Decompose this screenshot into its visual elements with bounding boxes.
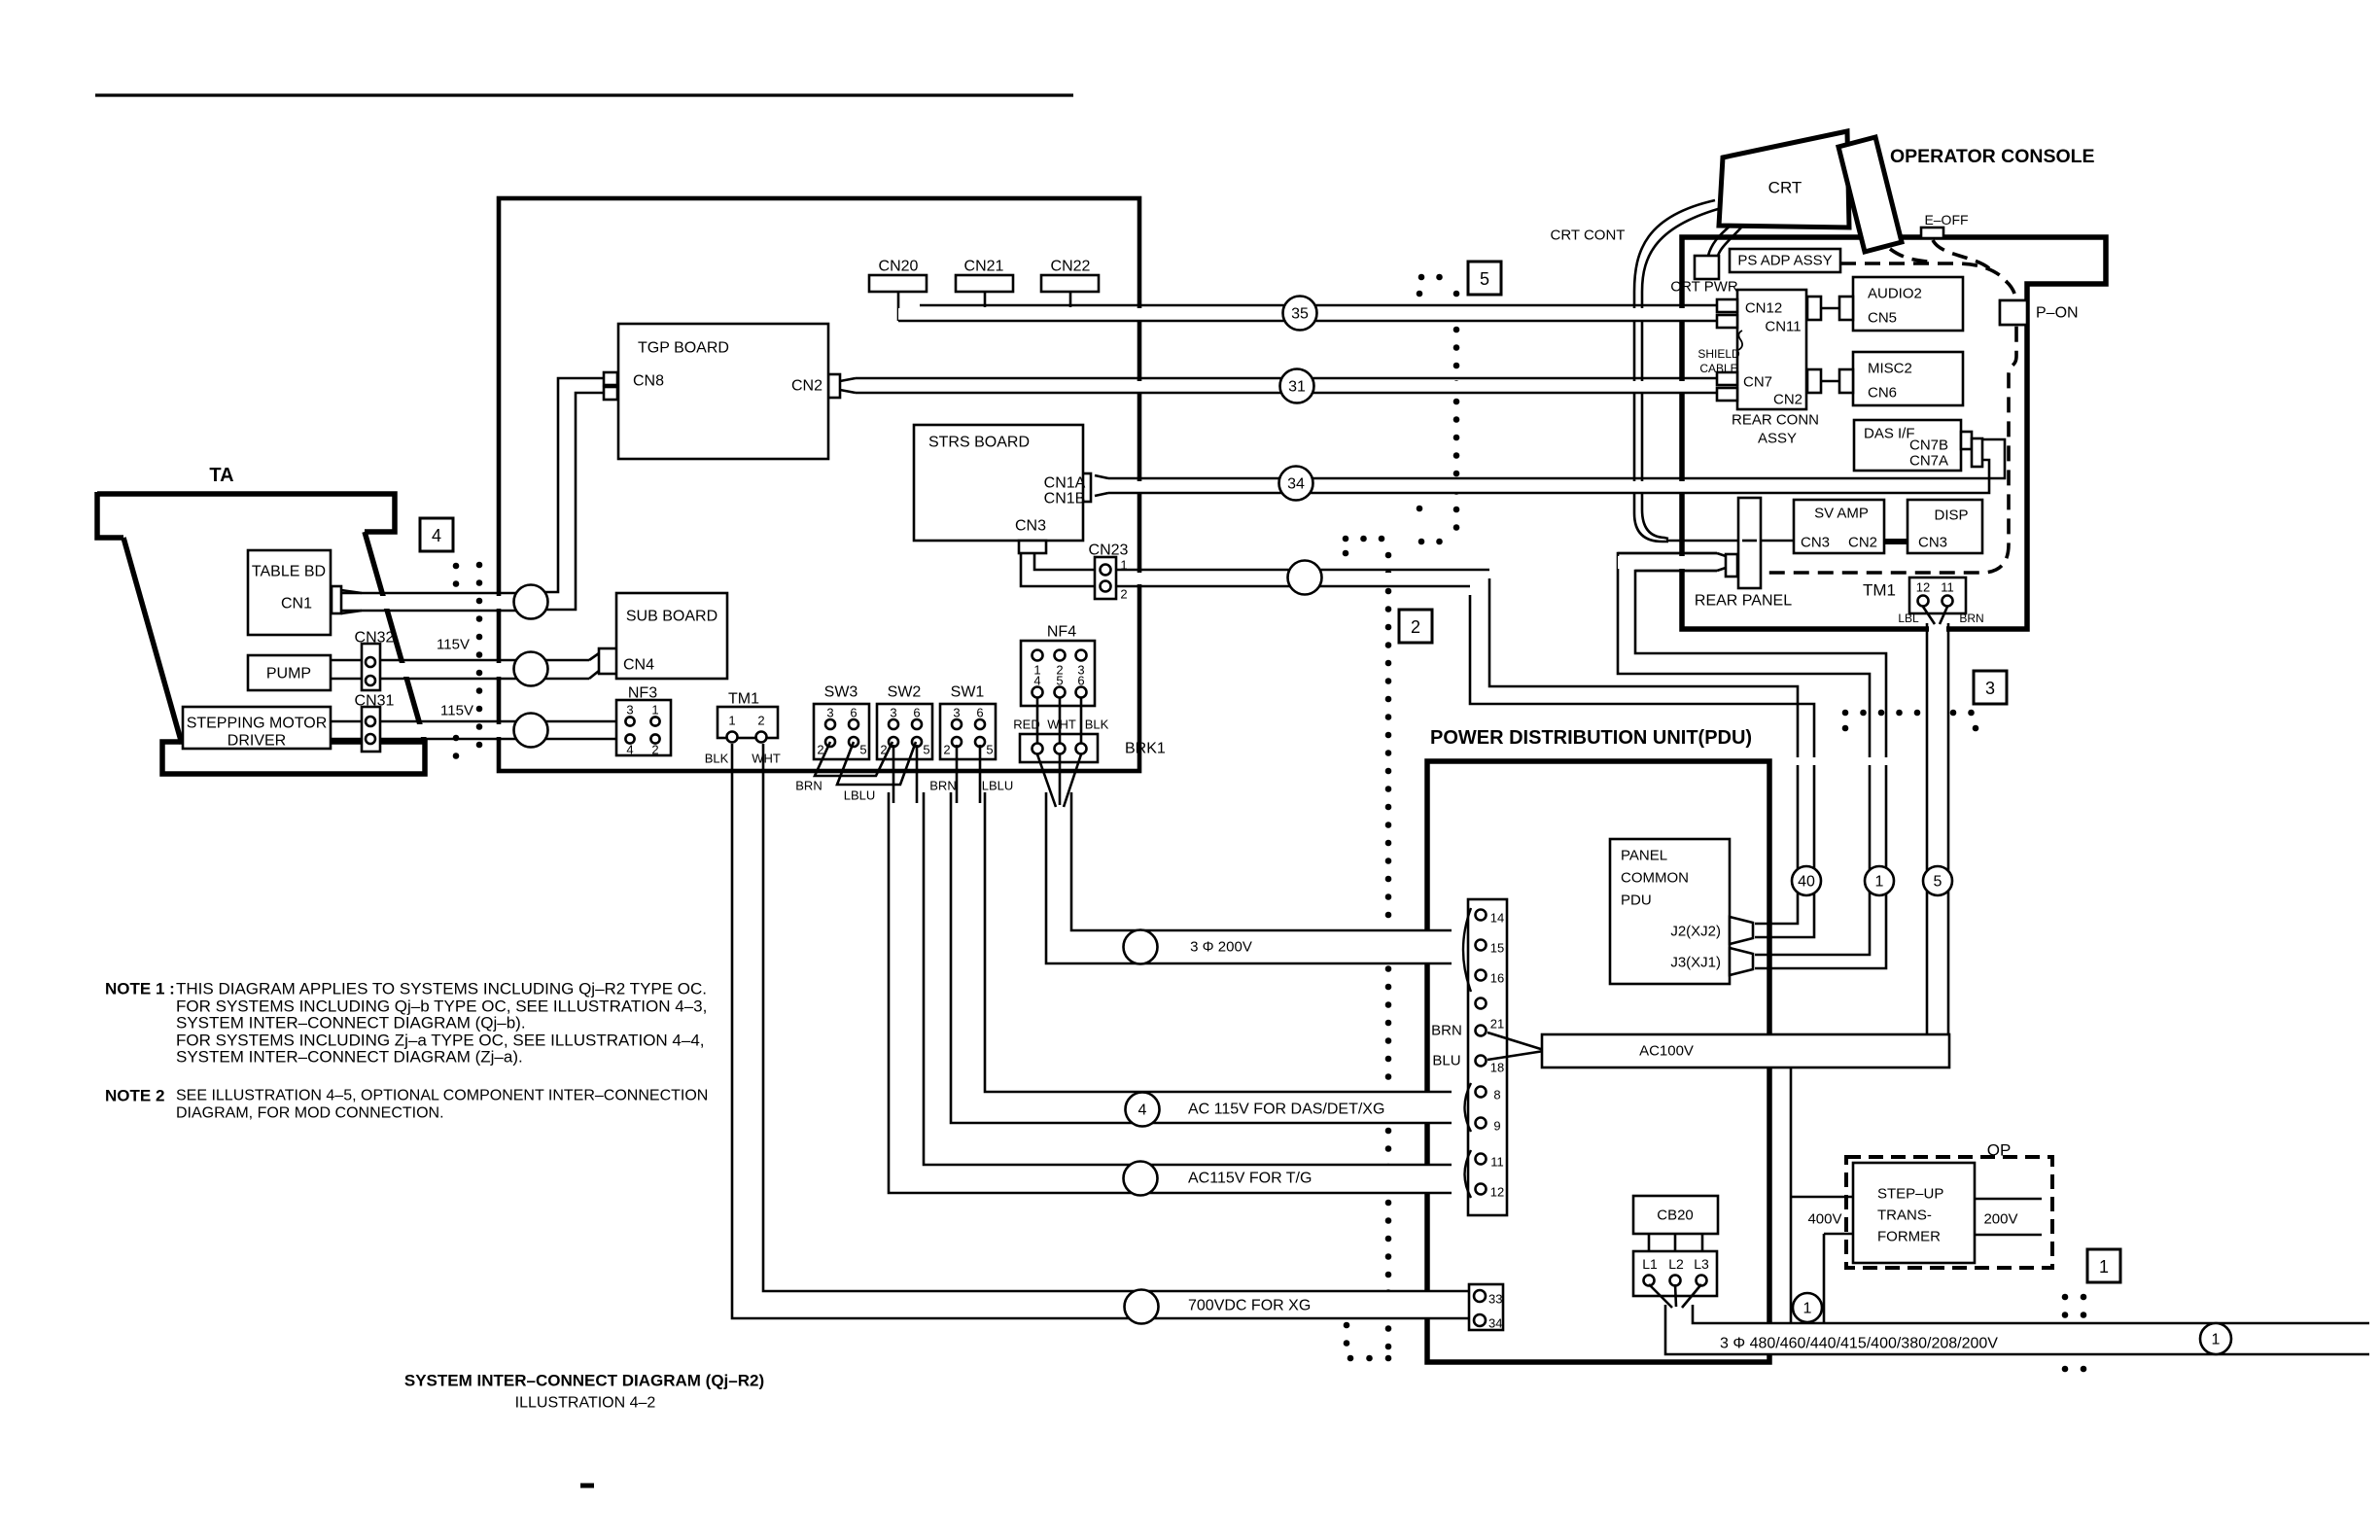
svg-text:115V: 115V (437, 637, 470, 653)
J3 wedge (1730, 948, 1753, 975)
svg-text:1: 1 (1875, 874, 1884, 891)
cable 35 channel (898, 308, 1713, 320)
svg-text:4: 4 (1138, 1102, 1147, 1119)
J2 wedge (1730, 917, 1753, 944)
PS ADP ASSY box (1730, 249, 1840, 272)
console TM1 pins (1918, 596, 1929, 607)
svg-text:LBL: LBL (1898, 612, 1919, 625)
TA outline bottom bar (162, 742, 425, 774)
svg-text:6: 6 (976, 706, 983, 720)
DAS I/F stubs (1961, 432, 1972, 449)
svg-text:REAR CONN: REAR CONN (1732, 412, 1819, 429)
SW3-SW2 crossover wire LBLU (837, 742, 916, 785)
SW3 pins (825, 719, 835, 729)
svg-text:40: 40 (1798, 874, 1815, 891)
svg-text:BLK: BLK (705, 752, 729, 766)
top rule line (95, 93, 1073, 96)
CN22 box (1041, 275, 1099, 292)
svg-text:BRN: BRN (929, 779, 956, 793)
svg-text:5: 5 (1480, 269, 1489, 289)
svg-text:SW1: SW1 (951, 684, 985, 701)
BRK1 box (1020, 734, 1098, 762)
svg-text:DAS I/F: DAS I/F (1864, 426, 1915, 442)
svg-text:21: 21 (1490, 1017, 1504, 1032)
3-phase 200V cable channel (1046, 792, 1452, 963)
svg-text:WHT: WHT (1047, 717, 1076, 732)
svg-text:11: 11 (1490, 1155, 1504, 1170)
CRT CONT cable curve (1634, 200, 1715, 542)
svg-text:AC 115V FOR DAS/DET/XG: AC 115V FOR DAS/DET/XG (1188, 1102, 1384, 1118)
svg-text:TABLE BD: TABLE BD (252, 564, 326, 580)
svg-text:L2: L2 (1668, 1256, 1684, 1272)
svg-text:CN2: CN2 (1848, 535, 1877, 551)
svg-text:2: 2 (1120, 587, 1127, 602)
svg-text:SYSTEM INTER–CONNECT DIAGRAM (: SYSTEM INTER–CONNECT DIAGRAM (Zj–a). (176, 1048, 523, 1067)
SW1 box (940, 704, 996, 759)
svg-text:AUDIO2: AUDIO2 (1868, 286, 1922, 302)
svg-text:CN3: CN3 (1015, 518, 1046, 535)
circled ref 5 (1923, 866, 1952, 895)
200V output lines (1975, 1198, 2042, 1201)
svg-text:CN2: CN2 (1773, 392, 1802, 408)
wire grommet to TGP CN8 upper (544, 378, 604, 592)
svg-text:POWER DISTRIBUTION UNIT(PDU): POWER DISTRIBUTION UNIT(PDU) (1430, 727, 1752, 749)
svg-text:CN6: CN6 (1868, 385, 1897, 402)
svg-text:1: 1 (728, 714, 735, 728)
CB20 stubs (1648, 1234, 1651, 1251)
svg-text:TM1: TM1 (1863, 581, 1896, 600)
wire STRS CN3 to CN23 pin2 (1021, 553, 1099, 586)
SW2 pin wires (892, 745, 895, 803)
svg-text:BRN: BRN (1431, 1023, 1462, 1039)
NF4 to BRK1 wires (1036, 698, 1039, 744)
svg-text:3 Φ 480/460/440/415/400/380/20: 3 Φ 480/460/440/415/400/380/208/200V (1720, 1336, 1998, 1352)
P-ON box redraw over dashed (2000, 300, 2027, 325)
svg-text:1: 1 (651, 703, 658, 717)
dash inside REAR PANEL connector (1742, 540, 1757, 542)
wire CN20 stub (897, 292, 900, 321)
svg-text:NF4: NF4 (1047, 624, 1076, 641)
svg-text:LBLU: LBLU (844, 788, 876, 803)
wire CN21/CN22 stubs (984, 292, 987, 307)
wire REAR PANEL to J3 upper (1618, 553, 1870, 955)
svg-text:TRANS-: TRANS- (1877, 1207, 1932, 1224)
PDU enclosure box (1427, 761, 1769, 1362)
svg-text:E–OFF: E–OFF (1924, 212, 1968, 227)
page dash (580, 1484, 594, 1488)
STRS CN3 stub (1019, 541, 1046, 553)
svg-text:4: 4 (626, 743, 633, 757)
svg-text:15: 15 (1490, 941, 1504, 956)
svg-text:PUMP: PUMP (266, 666, 311, 682)
gantry wall grommet (514, 585, 548, 619)
TA outline left step (97, 492, 123, 538)
E-OFF box (1921, 227, 1943, 238)
svg-text:1: 1 (2212, 1332, 2221, 1348)
wire REAR PANEL to J3 lower (1635, 571, 1886, 968)
svg-text:9: 9 (1493, 1119, 1500, 1134)
700VDC cable channel (732, 777, 1452, 1318)
svg-text:WHT: WHT (752, 752, 781, 766)
bundle marker 2 dotted line (1343, 536, 1349, 542)
svg-text:TA: TA (209, 465, 233, 486)
STRS BOARD box (914, 425, 1083, 541)
svg-text:4: 4 (1033, 674, 1040, 688)
svg-text:SV AMP: SV AMP (1814, 506, 1869, 522)
svg-text:L3: L3 (1694, 1256, 1709, 1272)
svg-text:1: 1 (1803, 1301, 1812, 1317)
STEP-UP TRANSFORMER box (1853, 1163, 1975, 1263)
svg-text:6: 6 (1077, 674, 1084, 688)
CN31 cable channel (331, 724, 622, 737)
svg-text:CN20: CN20 (879, 259, 919, 275)
cable 34 channel (1108, 481, 1988, 492)
cable grommet circle (1124, 1162, 1158, 1196)
strip group brackets (1463, 908, 1471, 992)
PANEL COMMON PDU box (1610, 839, 1730, 984)
svg-text:3 Φ 200V: 3 Φ 200V (1190, 939, 1252, 956)
svg-text:CN1B: CN1B (1044, 491, 1086, 507)
svg-text:CN3: CN3 (1801, 535, 1830, 551)
strip to AC100V wires (1487, 1032, 1544, 1050)
svg-text:12: 12 (1490, 1185, 1504, 1200)
svg-text:RED: RED (1013, 717, 1039, 732)
svg-text:FORMER: FORMER (1877, 1229, 1941, 1245)
cable31 wedges at CN7/CN2 (1717, 372, 1737, 385)
svg-text:6: 6 (913, 706, 920, 720)
svg-text:CN23: CN23 (1089, 542, 1129, 559)
circled ref 4 (1126, 1093, 1160, 1127)
svg-text:NOTE 2: NOTE 2 (105, 1087, 164, 1105)
svg-text:SUB BOARD: SUB BOARD (626, 609, 717, 625)
cable grommet circle (1124, 930, 1158, 964)
svg-text:2: 2 (651, 743, 658, 757)
svg-text:NF3: NF3 (628, 685, 657, 702)
svg-text:ASSY: ASSY (1758, 431, 1797, 447)
svg-text:3: 3 (626, 703, 633, 717)
svg-text:CN31: CN31 (355, 693, 395, 710)
TA outline right diagonal (365, 532, 425, 742)
TABLE BD box (248, 550, 331, 635)
svg-text:5: 5 (923, 743, 929, 757)
svg-text:CN21: CN21 (964, 259, 1004, 275)
SUB BOARD box (616, 593, 727, 679)
cable grommet circle (1288, 561, 1322, 595)
internal dashed cable E-OFF to rear panel (1762, 281, 2016, 573)
400V feed lines (1790, 1067, 1793, 1323)
svg-text:18: 18 (1490, 1061, 1504, 1075)
gantry wall grommet (514, 652, 548, 686)
AC115V DAS cable channel (951, 792, 1452, 1123)
svg-text:AC115V FOR T/G: AC115V FOR T/G (1188, 1171, 1312, 1187)
svg-text:400V: 400V (1807, 1211, 1841, 1228)
REAR PANEL cable channel (1618, 556, 1715, 569)
svg-text:SYSTEM INTER–CONNECT DIAGRAM (: SYSTEM INTER–CONNECT DIAGRAM (Qj–R2) (404, 1372, 764, 1390)
svg-text:1: 1 (2099, 1257, 2109, 1277)
strip pins (1476, 910, 1487, 921)
bundle marker 1 dotted bracket (2062, 1294, 2069, 1301)
svg-text:AC100V: AC100V (1639, 1043, 1694, 1060)
svg-text:6: 6 (850, 706, 857, 720)
svg-text:SYSTEM INTER–CONNECT DIAGRAM (: SYSTEM INTER–CONNECT DIAGRAM (Qj–b). (176, 1014, 526, 1032)
svg-text:TM1: TM1 (728, 691, 759, 708)
svg-text:STRS BOARD: STRS BOARD (928, 435, 1030, 451)
cable grommet circle (1125, 1290, 1159, 1324)
svg-text:CN8: CN8 (633, 373, 664, 390)
svg-text:J3(XJ1): J3(XJ1) (1670, 955, 1721, 971)
svg-text:SEE ILLUSTRATION 4–5, OPTIONAL: SEE ILLUSTRATION 4–5, OPTIONAL COMPONENT… (176, 1088, 708, 1104)
BRK1 pins (1032, 744, 1043, 754)
SW2 box (877, 704, 932, 759)
TABLE BD CN1 cable channel (341, 596, 526, 609)
cable 31 channel (856, 381, 1717, 392)
svg-text:34: 34 (1488, 1316, 1502, 1331)
PUMP/CN32 cable channel (331, 663, 589, 677)
wire CN23 to J2 upper (1489, 578, 1798, 924)
svg-text:STEP–UP: STEP–UP (1877, 1186, 1943, 1203)
svg-text:BRK1: BRK1 (1125, 741, 1166, 757)
svg-text:SW3: SW3 (824, 684, 858, 701)
console TM1 pin V wires (1923, 607, 1935, 624)
PDU terminal strip (1468, 899, 1507, 1215)
svg-text:OPERATOR CONSOLE: OPERATOR CONSOLE (1890, 146, 2095, 167)
bundle label box 1 (2087, 1249, 2120, 1282)
STEPPING MOTOR DRIVER box (183, 707, 331, 749)
svg-text:33: 33 (1488, 1292, 1502, 1307)
SW1 pin wires (956, 745, 959, 803)
svg-text:2: 2 (943, 743, 950, 757)
gantry TM1 box (717, 707, 778, 738)
bundle marker 3 dotted bracket (1842, 710, 1849, 717)
SUB BOARD CN4 stub (599, 648, 617, 674)
SV AMP to DISP link (1884, 539, 1907, 544)
CN20 box (869, 275, 927, 292)
svg-text:L1: L1 (1642, 1256, 1658, 1272)
svg-text:REAR PANEL: REAR PANEL (1695, 593, 1792, 610)
svg-text:COMMON: COMMON (1621, 870, 1689, 887)
svg-text:CN11: CN11 (1765, 319, 1801, 335)
TA gantry-table outline top bar (97, 494, 395, 532)
svg-text:THIS DIAGRAM APPLIES TO SYSTEM: THIS DIAGRAM APPLIES TO SYSTEMS INCLUDIN… (176, 980, 707, 998)
svg-text:3: 3 (890, 706, 896, 720)
console side panel polygon (1838, 137, 1902, 252)
operator console enclosure (1682, 237, 2106, 629)
svg-text:5: 5 (986, 743, 993, 757)
svg-text:5: 5 (859, 743, 866, 757)
bundle label box 5 (1468, 262, 1501, 295)
SV AMP box (1794, 500, 1884, 553)
cable35 wedges at CN12/CN11 (1717, 299, 1737, 312)
svg-text:J2(XJ2): J2(XJ2) (1670, 924, 1721, 940)
circled ref 40 (1792, 866, 1821, 895)
svg-text:CN7A: CN7A (1909, 453, 1948, 470)
AUDIO2 box (1853, 277, 1963, 331)
svg-text:BRN: BRN (795, 779, 822, 793)
33/34 connector (1469, 1284, 1503, 1330)
svg-text:BLK: BLK (1085, 717, 1109, 732)
console TM1 cable channel (1929, 623, 1946, 1034)
svg-text:NOTE 1 :: NOTE 1 : (105, 980, 175, 998)
svg-text:PDU: PDU (1621, 892, 1652, 909)
svg-text:MISC2: MISC2 (1868, 361, 1912, 377)
CRT polygon (1719, 131, 1849, 227)
CN32 connector (362, 644, 380, 690)
svg-text:700VDC FOR XG: 700VDC FOR XG (1188, 1298, 1311, 1314)
gantry wall grommet (514, 714, 548, 748)
svg-text:CN12: CN12 (1745, 300, 1782, 317)
svg-text:5: 5 (1934, 874, 1942, 891)
NF4 pins (1032, 650, 1043, 661)
svg-text:CN7: CN7 (1743, 374, 1772, 391)
svg-text:11: 11 (1941, 580, 1954, 595)
svg-text:BRN: BRN (1959, 612, 1983, 625)
circled ref 31 (1280, 369, 1314, 403)
circled ref 1 (1793, 1293, 1822, 1322)
svg-text:LBLU: LBLU (982, 779, 1014, 793)
AC100V bus box (1542, 1034, 1949, 1067)
svg-text:5: 5 (1056, 674, 1063, 688)
TGP CN8 stubs (604, 372, 617, 385)
svg-text:TGP BOARD: TGP BOARD (638, 340, 729, 357)
bundle marker 5 dotted bracket (1418, 274, 1425, 281)
svg-text:CN2: CN2 (791, 378, 822, 395)
svg-text:CB20: CB20 (1657, 1207, 1694, 1224)
L1L2L3 converge wires (1649, 1284, 1672, 1308)
wire STRS CN3 to CN23 pin1 (1034, 553, 1099, 570)
TA outline left diagonal (123, 538, 182, 744)
NF4 box (1021, 641, 1095, 706)
CRT CONT line to SV AMP (1666, 540, 1737, 542)
svg-text:14: 14 (1490, 911, 1504, 926)
svg-text:DISP: DISP (1934, 507, 1968, 524)
wire grommet to TGP CN8 lower (544, 393, 604, 610)
svg-text:16: 16 (1490, 971, 1504, 986)
bundle label box 4 (420, 518, 453, 551)
svg-text:CN4: CN4 (623, 657, 654, 674)
svg-text:200V: 200V (1983, 1211, 2017, 1228)
STRS CN1A/CN1B stub (1076, 473, 1091, 502)
svg-text:2: 2 (1411, 617, 1420, 637)
svg-text:ILLUSTRATION 4–2: ILLUSTRATION 4–2 (515, 1395, 656, 1412)
MISC2 connector pair (1821, 380, 1839, 383)
bundle label box 3 (1974, 671, 2007, 704)
REAR PANEL connector box (1738, 498, 1761, 588)
svg-text:CRT: CRT (1768, 179, 1802, 197)
PUMP box (248, 655, 331, 690)
REAR PANEL wedge (1726, 554, 1737, 577)
MISC2 box (1853, 352, 1963, 405)
CN23 connector (1095, 557, 1116, 599)
REAR CONN ASSY box (1737, 290, 1806, 409)
TGP BOARD box (618, 324, 828, 459)
svg-text:CABLE: CABLE (1699, 362, 1737, 375)
circled ref 34 (1279, 467, 1313, 501)
DAS I/F box (1854, 420, 1961, 471)
svg-text:PANEL: PANEL (1621, 848, 1667, 864)
svg-text:34: 34 (1287, 476, 1305, 493)
svg-text:CRT PWR: CRT PWR (1670, 279, 1738, 296)
P-ON box (2000, 300, 2027, 325)
svg-text:4: 4 (432, 526, 441, 545)
CRT PWR box (1695, 256, 1719, 279)
SW1 pins (952, 719, 962, 729)
svg-text:CN22: CN22 (1051, 259, 1091, 275)
NF3 box (616, 700, 671, 755)
svg-text:35: 35 (1291, 306, 1309, 323)
circled ref 1 (1865, 866, 1894, 895)
CN31 connector (362, 707, 380, 752)
svg-text:SHIELD: SHIELD (1697, 347, 1740, 361)
circled ref 35 (1283, 297, 1317, 331)
AUDIO2 connector pair (1821, 307, 1839, 310)
svg-text:STEPPING MOTOR: STEPPING MOTOR (187, 716, 328, 732)
svg-text:CRT CONT: CRT CONT (1551, 227, 1626, 244)
svg-text:CN7B: CN7B (1909, 437, 1948, 454)
svg-text:3: 3 (953, 706, 960, 720)
CRT PWR cable curve (1708, 225, 1732, 256)
svg-text:OP: OP (1987, 1141, 2012, 1160)
CN21 box (956, 275, 1013, 292)
OP dashed box (1846, 1157, 2052, 1268)
L1L2L3 box (1633, 1251, 1717, 1296)
console TM1 box (1909, 577, 1966, 613)
svg-text:BLU: BLU (1432, 1053, 1460, 1069)
SW3-SW2 crossover wire BRN (815, 742, 892, 776)
SW2 pins (889, 719, 898, 729)
svg-text:DIAGRAM, FOR MOD CONNECTION.: DIAGRAM, FOR MOD CONNECTION. (176, 1105, 444, 1122)
svg-text:3: 3 (1985, 679, 1995, 698)
DISP box (1907, 500, 1982, 553)
svg-text:2: 2 (757, 714, 764, 728)
svg-text:PS ADP ASSY: PS ADP ASSY (1737, 253, 1832, 269)
circled ref 1 (2200, 1323, 2231, 1354)
svg-text:8: 8 (1493, 1088, 1500, 1102)
svg-text:115V: 115V (440, 703, 473, 719)
BRK1 converge wires (1037, 754, 1056, 807)
CN23 cable channel (1118, 573, 1449, 584)
gantry enclosure box (499, 198, 1139, 771)
NF3 pins (625, 717, 634, 725)
bundle marker 4 dotted bracket (453, 563, 460, 570)
svg-text:CN5: CN5 (1868, 310, 1897, 327)
svg-text:CN1: CN1 (281, 596, 312, 612)
wire CN23 to J2 lower (1470, 595, 1814, 937)
svg-text:CN32: CN32 (355, 630, 395, 647)
TABLE BD CN1 stub (332, 586, 341, 613)
svg-text:1: 1 (1120, 558, 1127, 573)
white break on PDU top edge for J2 wires (1792, 757, 1819, 765)
bundle label box 2 (1399, 610, 1432, 643)
svg-text:12: 12 (1916, 580, 1930, 595)
svg-text:3: 3 (826, 706, 833, 720)
svg-text:CN1A: CN1A (1044, 475, 1086, 492)
svg-text:DRIVER: DRIVER (227, 733, 286, 750)
CB20 box (1633, 1196, 1718, 1234)
AC115V TG cable channel (889, 792, 1452, 1193)
svg-text:SW2: SW2 (888, 684, 922, 701)
svg-text:P–ON: P–ON (2036, 305, 2079, 322)
3-phase 480V bus channel (1665, 1305, 2369, 1354)
gantry TM1 pins (727, 732, 738, 743)
TGP CN2 stub (828, 374, 840, 398)
svg-text:CN3: CN3 (1918, 535, 1947, 551)
svg-text:31: 31 (1288, 379, 1306, 396)
SW3 box (814, 704, 869, 759)
